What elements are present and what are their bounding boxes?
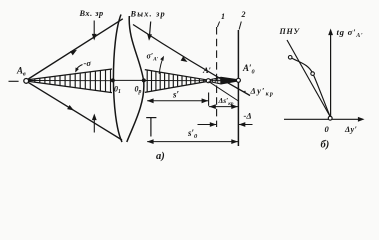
ideal image point A'0 circle — [236, 78, 240, 82]
PNU straight line — [287, 40, 330, 117]
lower marginal ray — [28, 82, 122, 140]
axis inside lens — [113, 79, 144, 81]
origin circle — [328, 116, 332, 120]
svg-text:A′: A′ — [202, 65, 211, 75]
curve mid circle — [311, 72, 315, 76]
svg-text:Вых. зр: Вых. зр — [130, 10, 166, 19]
graph vertical axis tg sigma' — [330, 32, 332, 118]
curve end circle — [288, 56, 292, 60]
angle arrow -sigma — [76, 65, 83, 71]
tick for label 1 — [217, 22, 219, 28]
svg-text:а): а) — [156, 151, 165, 162]
image point A' circle — [206, 79, 210, 83]
lower edge ray beyond A' — [209, 81, 239, 101]
upper ray arrowhead — [70, 50, 77, 56]
principal ray to image plane — [133, 25, 250, 96]
hatched beam image side — [145, 70, 207, 93]
upper marginal ray — [28, 19, 123, 79]
dimension -Delta — [198, 122, 253, 127]
lens surface right arc — [127, 16, 144, 142]
focal tick mark — [146, 117, 156, 119]
dimension s' — [147, 93, 209, 106]
pupil edge arrow — [93, 117, 95, 133]
svg-text:1: 1 — [221, 12, 225, 21]
tick for label 2 — [239, 22, 241, 30]
point A_v circle — [24, 79, 29, 84]
principal ray arrowhead — [181, 57, 188, 63]
exit pupil pointer arrow — [149, 22, 150, 38]
vertex dot Op — [142, 78, 146, 82]
svg-text:Вх. зр: Вх. зр — [79, 9, 104, 18]
svg-text:-σ: -σ — [84, 58, 92, 68]
svg-text:2: 2 — [241, 10, 246, 19]
aberration curve — [290, 57, 330, 117]
svg-text:-Δ: -Δ — [244, 111, 252, 121]
angle arrow sigma' — [159, 58, 163, 74]
image plane line 2 — [237, 30, 239, 146]
entrance pupil pointer arrow — [93, 21, 95, 37]
lower ray arrowhead — [67, 105, 74, 111]
hatched beam object side — [29, 69, 112, 93]
optical axis left dash — [9, 80, 19, 82]
defocused beam A' to A'0 — [210, 77, 237, 84]
graph horizontal axis dy' — [284, 118, 362, 120]
dimension s'0 — [147, 139, 238, 144]
vertex dot O1 — [111, 78, 115, 82]
svg-text:Δy′: Δy′ — [344, 125, 357, 134]
dimension delta s' kr — [209, 104, 238, 109]
svg-text:б): б) — [321, 140, 330, 151]
svg-text:ПНУ: ПНУ — [279, 27, 301, 36]
lens surface left arc — [113, 15, 122, 143]
dashed plane 1 — [216, 27, 218, 127]
svg-text:s′: s′ — [172, 90, 180, 100]
